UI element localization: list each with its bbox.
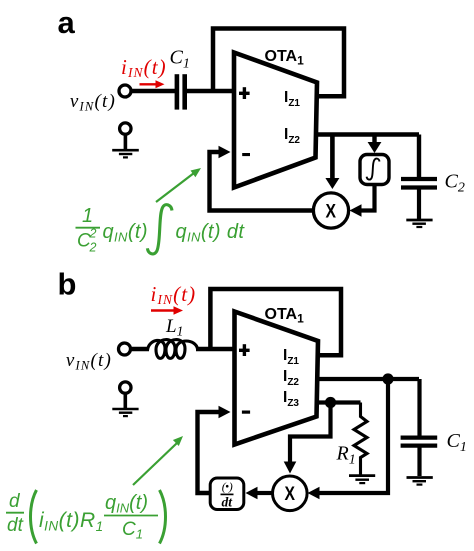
svg-text:iIN(t): iIN(t) — [151, 282, 197, 307]
ground a input — [124, 135, 128, 151]
svg-text:iIN(t)R1: iIN(t)R1 — [39, 509, 104, 534]
svg-text:b: b — [58, 267, 77, 302]
pin - panel b — [242, 411, 250, 414]
svg-text:C1: C1 — [122, 519, 143, 542]
op-amp OTA1 panel a — [234, 53, 317, 188]
ground R1 — [349, 474, 375, 477]
wire IZ2 output a — [316, 132, 420, 136]
pin - panel a — [242, 153, 250, 156]
svg-text:a: a — [58, 5, 76, 40]
svg-text:X: X — [284, 484, 295, 505]
wire feedback loop rectangle b (IZ1 to + input) — [210, 289, 341, 355]
wire terminal to L1 — [131, 347, 150, 351]
pin + panel b — [239, 349, 250, 352]
node vIN terminal a — [119, 85, 131, 97]
wire IZ2 output b — [317, 377, 419, 381]
reference terminal circle a — [120, 123, 131, 134]
svg-text:C1: C1 — [170, 47, 190, 72]
wire IZ2 node down to multiplier b — [318, 379, 388, 493]
svg-text:L1: L1 — [165, 316, 183, 339]
svg-text:dt: dt — [7, 515, 24, 536]
svg-text:C1: C1 — [447, 430, 467, 455]
svg-text:vIN(t): vIN(t) — [70, 91, 116, 114]
svg-text:X: X — [325, 202, 336, 223]
svg-text:OTA1: OTA1 — [265, 48, 305, 68]
junction dot IZ3 node — [325, 397, 336, 408]
green arrow annotation a — [156, 173, 194, 202]
wire L1 to + input — [196, 347, 235, 351]
capacitor C2 — [401, 177, 437, 181]
wire integrator to multiplier a — [359, 184, 375, 211]
op-amp OTA1 panel b — [235, 312, 319, 445]
svg-text:1: 1 — [82, 205, 93, 227]
svg-text:iIN(t): iIN(t) — [121, 55, 167, 80]
svg-text:qIN(t) dt: qIN(t) dt — [176, 221, 246, 245]
wire multiplier to - input a — [210, 152, 314, 211]
green formula a: (1/C2^2) qIN(t) Int qIN(t) dt — [76, 205, 246, 255]
ground C2 — [406, 219, 432, 222]
wire C1 to + input — [187, 89, 234, 93]
svg-text:C2: C2 — [445, 171, 465, 196]
green arrow annotation b — [133, 443, 177, 485]
derivative box ddt — [210, 478, 244, 510]
svg-text:OTA1: OTA1 — [265, 306, 305, 326]
wire feedback loop rectangle a (IZ1 to + input) — [213, 29, 344, 97]
wire C1 branch b — [417, 379, 421, 436]
reference terminal circle b — [120, 382, 131, 393]
multiplier X panel a — [313, 193, 348, 228]
junction dot IZ2 node — [382, 373, 393, 384]
multiplier X panel b — [273, 476, 308, 511]
svg-text:2: 2 — [89, 241, 97, 255]
ground b input — [124, 394, 128, 409]
node vIN terminal b — [119, 343, 131, 355]
green formula b: d/dt ( iIN(t) R1 qIN(t)/C1 ) — [6, 490, 166, 544]
pin + panel a — [239, 92, 250, 95]
svg-text:vIN(t): vIN(t) — [66, 350, 112, 373]
wire multiplier to ddt box b — [256, 491, 272, 495]
wire IZ2 to C2 branch — [417, 135, 421, 178]
svg-text:2: 2 — [89, 227, 97, 241]
ground C1 b — [407, 476, 433, 479]
wire drop to integrator a — [372, 135, 376, 143]
wire terminal to C1 — [131, 89, 175, 93]
inductor L1 coil — [148, 340, 198, 359]
resistor R1 — [354, 403, 367, 477]
red current arrow b — [151, 309, 174, 311]
wire ddt box to - input b — [198, 412, 220, 493]
capacitor C1 shunt b — [401, 436, 438, 440]
wire IZ3 output b — [317, 400, 361, 404]
integrator box a — [360, 155, 389, 185]
red current arrow a — [140, 83, 157, 85]
capacitor C1 — [175, 74, 180, 109]
svg-text:d: d — [9, 491, 21, 512]
wire IZ3 node to multiplier b — [290, 403, 331, 463]
svg-text:qIN(t): qIN(t) — [105, 492, 148, 516]
svg-text:qIN(t): qIN(t) — [103, 221, 148, 245]
wire drop to multiplier a — [330, 135, 335, 180]
svg-text:dt: dt — [222, 495, 234, 510]
